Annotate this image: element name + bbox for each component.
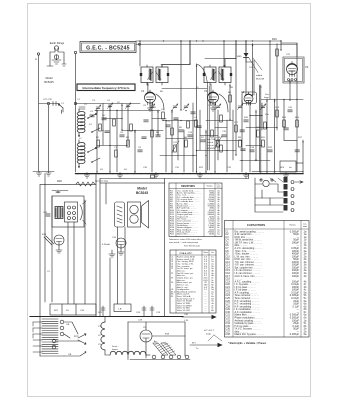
ground below valve V1 [148, 103, 153, 111]
svg-text:V4: V4 [305, 65, 309, 69]
svg-text:L.W.: L.W. [184, 320, 189, 322]
trimmer capacitor [183, 104, 189, 110]
lead arrows H.T. [182, 314, 223, 350]
valve V4 [287, 62, 298, 77]
svg-text:V2: V2 [204, 89, 208, 93]
dropper resistors R17 [153, 343, 176, 355]
svg-text:Mains R.F. by-pass ... ... ...: Mains R.F. by-pass ... ... ... [235, 333, 265, 336]
trimmer capacitor [125, 103, 131, 109]
tolerance notes [169, 238, 203, 248]
svg-text:(circuit: (circuit [207, 144, 214, 147]
svg-text:R20: R20 [57, 179, 62, 183]
svg-text:ation: ation [217, 186, 221, 189]
transformer T2 [115, 202, 125, 227]
valve V3 [244, 92, 253, 105]
trimmer capacitor [172, 104, 178, 110]
svg-text:Mains filter ... ... ..: Mains filter ... ... .. [177, 233, 195, 236]
heater bus [30, 316, 183, 318]
capacitor C26 [46, 214, 50, 216]
capacitor C3a [56, 190, 60, 193]
svg-text:R17, R18 (3 watt): R17, R18 (3 watt) [184, 245, 200, 248]
IF transformer IFT2 [203, 65, 232, 85]
svg-text:Loc: Loc [211, 252, 214, 254]
resistors main schematic [97, 95, 299, 157]
trimmer capacitor [149, 104, 155, 110]
svg-text:Values: Values [207, 185, 213, 187]
svg-text:BC4845): BC4845) [207, 148, 216, 150]
switch box Sn [280, 161, 303, 172]
coil L2 [77, 140, 85, 168]
svg-text:Intermediate frequency 470 kc/: Intermediate frequency 470 kc/s [83, 86, 130, 90]
svg-text:* Electrolytic. + Variable.: * Electrolytic. + Variable. ‡ Preset. [228, 342, 267, 345]
svg-text:RD: RD [160, 91, 164, 93]
resistor R19 [44, 236, 54, 245]
lower component box [50, 304, 96, 315]
IF transformer IFT1 [140, 65, 169, 85]
svg-text:CAPACITORS: CAPACITORS [247, 223, 265, 227]
capacitor C35 [240, 130, 244, 132]
scale lamps V1 V2 V3 [98, 317, 150, 356]
svg-text:Scale: Scale [112, 346, 118, 348]
wire verticals main schematic [97, 41, 303, 172]
junction dots bus [77, 173, 295, 174]
wire curve osc [197, 64, 208, 86]
coils and misc table [170, 250, 216, 313]
wire IFT1 top connect [162, 41, 190, 67]
title box G.E.C. - BC5245 [80, 42, 136, 53]
wire left border [75, 54, 77, 173]
ground below valve V2 [211, 103, 216, 111]
terminal panel schematic [255, 177, 303, 212]
valve V2 [208, 90, 219, 105]
svg-text:RESISTORS: RESISTORS [181, 185, 195, 188]
capacitor C24 [101, 306, 105, 316]
svg-text:lamp: lamp [264, 97, 270, 99]
trimmer capacitor [260, 104, 266, 110]
svg-text:6.25mA: 6.25mA [102, 243, 110, 246]
wire verticals [68, 200, 85, 304]
ground [109, 250, 115, 257]
component labels [90, 92, 300, 149]
svg-text:V1: V1 [141, 89, 145, 93]
svg-text:switch: switch [207, 141, 214, 144]
capacitors table [225, 221, 310, 338]
wire section connectors [45, 174, 165, 185]
valve V7 [116, 238, 126, 248]
section box model BC5245 [95, 175, 165, 317]
svg-text:Model: Model [137, 187, 147, 191]
trimmer capacitor [107, 103, 113, 109]
svg-text:COILS, ETC.: COILS, ETC. [180, 253, 193, 255]
svg-text:ation: ation [303, 225, 307, 228]
svg-text:R16: R16 [272, 37, 277, 41]
lower component box [114, 304, 131, 312]
output stage box [272, 37, 304, 83]
speaker plug outer box [52, 196, 84, 227]
svg-text:G.E.C. - BC5245: G.E.C. - BC5245 [86, 46, 130, 52]
junction dots crossings [96, 99, 297, 161]
terminal Ta [139, 43, 141, 45]
extra labels [77, 54, 303, 171]
wire [44, 184, 46, 302]
main top bus [136, 40, 281, 42]
ground [56, 245, 62, 253]
svg-text:0.005μF: 0.005μF [290, 333, 300, 336]
capacitor C2 trimmer left [79, 107, 85, 109]
svg-text:added: added [256, 75, 263, 77]
rectifier V5 [128, 320, 190, 360]
terminal circles [152, 355, 156, 359]
trimmer capacitor [237, 104, 243, 110]
ground symbols main bus [85, 173, 289, 179]
earth fittings symbol [47, 41, 66, 66]
svg-text:Values: Values [289, 225, 296, 227]
speaker arc [80, 205, 82, 220]
svg-text:Model: Model [45, 76, 52, 80]
resistors table [169, 183, 222, 237]
valve V4 pins [288, 79, 297, 81]
wire curve V1 anode [156, 94, 164, 110]
speaker plug pins [65, 202, 78, 222]
capacitor C7 on sub-bus [151, 175, 155, 178]
wire shorts [152, 119, 262, 146]
wire verticals [118, 227, 126, 304]
svg-text:Valve V5 U31: Valve V5 U31 [177, 310, 191, 312]
svg-text:Earth fittings: Earth fittings [50, 41, 65, 45]
mains transformer T4 [33, 317, 86, 357]
resistor R24 [171, 128, 174, 135]
svg-text:Speaker plug: Speaker plug [95, 180, 109, 183]
valve V3 screen box [242, 92, 257, 104]
main ground bus [76, 173, 304, 175]
svg-text:C27 C28: C27 C28 [43, 99, 52, 101]
capacitors extra [105, 118, 245, 151]
valve V1 [145, 90, 156, 105]
svg-text:A: A [35, 57, 37, 61]
resistor R20 zigzag [76, 182, 95, 186]
speaker LS [128, 202, 141, 227]
wire curve V2 anode [219, 94, 228, 112]
trimmer capacitor [215, 104, 221, 110]
variable resistor arrows [172, 136, 222, 152]
diode MR1 [237, 41, 265, 81]
switch S1 contacts [87, 113, 97, 153]
svg-text:100pF: 100pF [292, 275, 300, 278]
aerial lead A [35, 53, 40, 171]
capacitor C22 [295, 150, 299, 152]
svg-text:L.B.: L.B. [118, 309, 122, 311]
coil L1 [77, 109, 85, 137]
svg-text:H.T. & E.T.: H.T. & E.T. [204, 330, 215, 332]
svg-text:lamps: lamps [112, 349, 119, 351]
wire screened lead double [208, 86, 210, 170]
earth lead E [47, 102, 49, 171]
capacitor C21 [284, 128, 288, 130]
section box left chassis [40, 179, 96, 316]
resistors extra [99, 115, 267, 131]
wire sub-bus [100, 174, 249, 179]
transformer T3 core [55, 207, 63, 219]
svg-text:100Ω: 100Ω [209, 234, 215, 236]
svg-text:MR1: MR1 [237, 56, 242, 58]
svg-text:OB: OB [66, 324, 70, 326]
junction dots top bus [139, 40, 281, 41]
svg-text:Ohms: Ohms [203, 252, 208, 254]
svg-text:M.T.: M.T. [192, 343, 197, 345]
svg-text:BC5245: BC5245 [136, 191, 148, 195]
wire [105, 183, 107, 204]
wire junction dots [96, 40, 303, 172]
svg-text:C38: C38 [225, 333, 230, 336]
wire IFT2 top connect [225, 41, 236, 67]
resistor R23 [220, 145, 223, 152]
capacitor C33 [191, 112, 195, 114]
svg-text:BC5248: BC5248 [256, 79, 265, 81]
wire horizontals main schematic [76, 59, 304, 161]
svg-text:BC5245: BC5245 [44, 80, 54, 84]
intermediate frequency label [77, 84, 135, 91]
ground A/E [33, 172, 54, 177]
switch S2 contacts [91, 128, 100, 163]
capacitor C27 C28 [39, 99, 65, 114]
svg-text:leads: leads [206, 334, 212, 336]
svg-text:see T&B: see T&B [207, 139, 216, 141]
capacitors main schematic [90, 110, 292, 152]
svg-text:Tolerances: values 20% unless: Tolerances: values 20% unless other- [169, 238, 203, 241]
note switch circuit [207, 139, 216, 150]
valve V6 [54, 235, 64, 245]
trimmer capacitor [95, 105, 101, 111]
